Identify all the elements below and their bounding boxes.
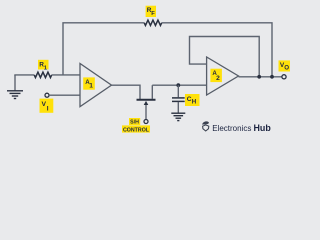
label Vi — [40, 99, 54, 113]
wire A1 output to switch drain — [112, 85, 141, 99]
wire Vi to A1 non-inverting input — [49, 94, 80, 96]
wire R1 to A1 inverting input (node with feedback at x=63) — [52, 74, 80, 76]
wire top feedback left segment — [63, 23, 144, 75]
svg-text:Hub: Hub — [254, 123, 272, 133]
svg-text:2: 2 — [216, 75, 220, 82]
wire switch source to A2 non-inverting input — [152, 84, 206, 86]
wire A2 feedback loop — [190, 37, 260, 77]
label A2 — [210, 69, 222, 82]
label RF — [146, 6, 156, 17]
svg-text:V: V — [42, 101, 47, 108]
svg-text:CONTROL: CONTROL — [123, 127, 150, 133]
capacitor CH — [172, 85, 185, 113]
ground (left input) — [7, 75, 23, 99]
label CH — [185, 94, 200, 106]
svg-text:O: O — [284, 65, 289, 72]
svg-text:I: I — [47, 105, 49, 112]
op-amp A1 — [80, 64, 112, 107]
label S/H CONTROL — [122, 118, 150, 133]
node junction feedback A2 — [257, 75, 261, 79]
node S/H control terminal — [144, 120, 148, 124]
wire A2 output to Vo — [239, 76, 283, 78]
wire ground to R1 — [15, 74, 34, 77]
svg-text:S/H: S/H — [130, 120, 139, 126]
node junction feedback RF — [270, 75, 274, 79]
svg-text:1: 1 — [89, 83, 93, 90]
svg-text:H: H — [192, 99, 197, 106]
node Vi input terminal — [45, 93, 49, 97]
wire top feedback right segment — [162, 23, 272, 77]
op-amp A2 — [207, 57, 239, 95]
node Vo output terminal — [282, 75, 286, 79]
label Vo — [279, 60, 291, 71]
label A1 — [83, 77, 95, 89]
transistor sampling switch (FET) — [137, 85, 156, 119]
node junction CH — [176, 83, 180, 87]
ground (capacitor CH) — [171, 113, 185, 120]
svg-text:F: F — [151, 11, 155, 17]
svg-text:Electronics: Electronics — [212, 123, 251, 133]
resistor R1 — [34, 72, 52, 77]
label R1 — [38, 60, 49, 72]
Electronics Hub logo — [202, 121, 209, 131]
resistor RF — [144, 20, 162, 25]
